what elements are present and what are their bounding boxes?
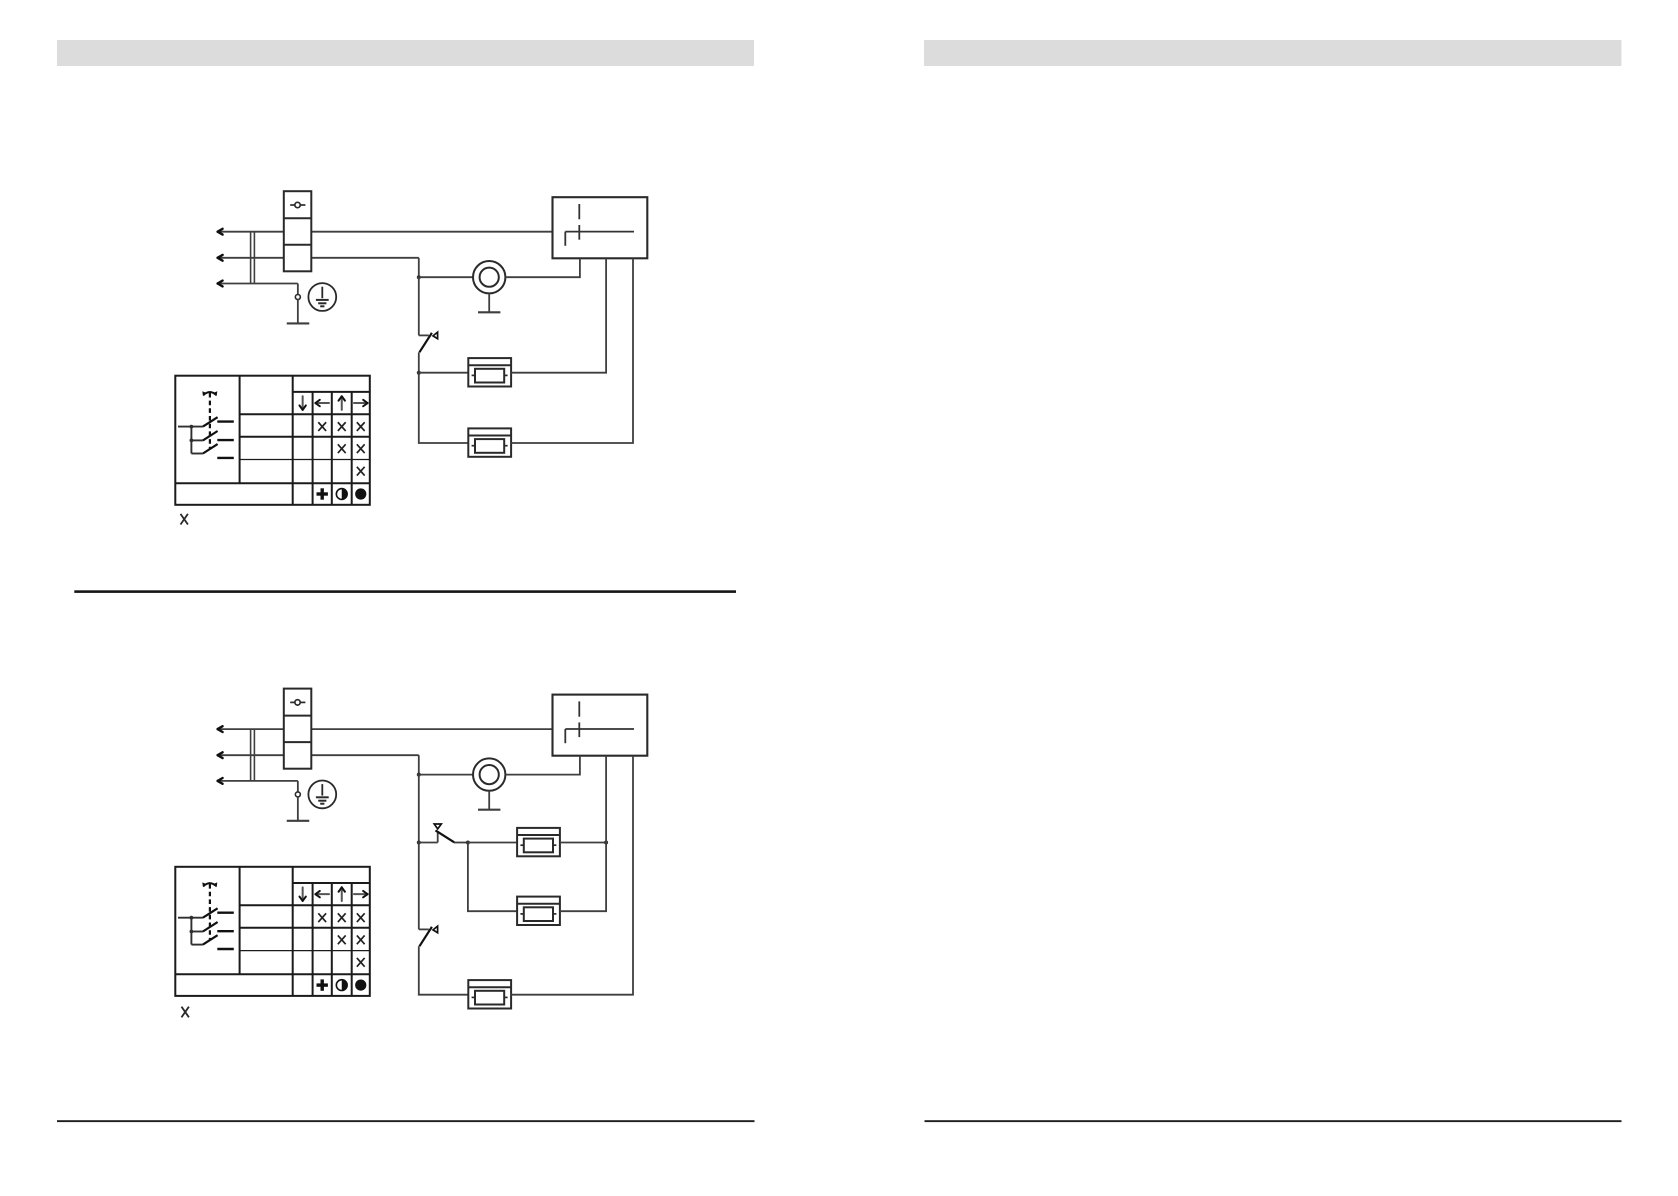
table T1 3-pole contact pictogram (178, 417, 234, 458)
table T1 header direction arrows (299, 396, 367, 410)
cable marker (diagram 1) (251, 232, 255, 284)
thermal contact F3 (diagram 2) (419, 926, 438, 946)
wire to lamp E1 (diagram 2) (468, 842, 517, 844)
feeder arrow L2 (diagram 2) (218, 752, 223, 758)
PE terminal and ground (diagram 2) (287, 781, 310, 821)
section divider rule (74, 590, 736, 593)
wire node to motor (diagram 2) (419, 774, 473, 776)
wire control unit to right bus (diagram 2) (605, 756, 607, 843)
wire contact to parallel lamps (diagram 2) (454, 842, 468, 844)
thermal contact F2 (diagram 1) (419, 332, 438, 352)
switch-position table T1 grid (175, 376, 369, 505)
wire node down to thermal contact (diagram 1) (418, 277, 420, 335)
table T1 footer state symbols (317, 488, 367, 499)
protective-earth symbol (diagram 1) (308, 283, 336, 311)
control unit A1 (diagram 1) (553, 197, 648, 258)
page header bar left (57, 40, 754, 66)
junction node parallel lamps left (diagram 2) (466, 841, 470, 845)
feeder arrow L2 (diagram 1) (218, 255, 223, 261)
wire L2 feeder (diagram 2) (218, 754, 419, 756)
feeder arrow L1 (diagram 2) (218, 726, 223, 732)
junction node lamp bus top (diagram 2) (417, 841, 421, 845)
wire lamp E2 to right bus (diagram 2) (560, 843, 606, 912)
PE terminal and ground (diagram 1) (287, 284, 310, 324)
wire node to motor (diagram 1) (419, 276, 473, 278)
wire node to thermal contact F2 (diagram 2) (419, 842, 438, 844)
wire L2 feeder (diagram 1) (218, 257, 419, 259)
wire L1 feeder (diagram 2) (218, 728, 553, 730)
feeder arrow PE (diagram 1) (218, 281, 223, 287)
feeder arrow PE (diagram 2) (218, 778, 223, 784)
main switch Q1 (diagram 2) (284, 689, 312, 769)
table T1 footnote X (181, 514, 188, 525)
table T2 X marks (318, 913, 364, 966)
wire node down to lamp bus (diagram 2) (418, 775, 420, 843)
wire PE feeder (diagram 2) (218, 780, 298, 782)
page footer rule left (57, 1120, 755, 1122)
wire L2 drop to motor node (diagram 1) (418, 258, 420, 277)
wire contact to lamp node (diagram 1) (418, 352, 420, 372)
control unit A1 (diagram 2) (553, 695, 648, 756)
junction node motor row (diagram 2) (417, 773, 421, 777)
junction node motor row (diagram 1) (417, 275, 421, 279)
signal lamp E2 (diagram 1) (468, 428, 511, 456)
page footer rule right (925, 1120, 1622, 1122)
wire L1 feeder (diagram 1) (218, 231, 553, 233)
wire motor to control unit (diagram 2) (505, 756, 580, 775)
table T2 header direction arrows (299, 887, 367, 901)
signal lamp E2 (diagram 2) (517, 897, 560, 925)
wire PE feeder (diagram 1) (218, 283, 298, 285)
table T2 footnote X (182, 1007, 189, 1018)
wire lamp E3 to control unit (diagram 2) (511, 756, 633, 995)
cable marker (diagram 2) (251, 729, 255, 781)
signal lamp E3 (diagram 2) (468, 980, 511, 1008)
page header bar right (924, 40, 1622, 66)
wire lamp E1 to right bus (diagram 2) (560, 842, 606, 844)
wire lamp E2 to control unit (diagram 1) (511, 258, 633, 443)
motor M1 (diagram 2) (473, 758, 505, 809)
feeder arrow L1 (diagram 1) (218, 229, 223, 235)
wire node to lamp E1 (diagram 1) (419, 372, 469, 374)
wire L2 drop to motor node (diagram 2) (418, 755, 420, 774)
switch-position table T2 grid (175, 867, 369, 996)
wire motor to control unit (diagram 1) (505, 258, 580, 277)
thermal contact F2 (diagram 2) (434, 824, 454, 843)
main switch Q1 (diagram 1) (284, 191, 312, 271)
signal lamp E1 (diagram 1) (468, 358, 511, 386)
wire contact F3 down to lamp E3 (diagram 2) (419, 946, 469, 994)
wire node down to lamp E2 (diagram 1) (419, 373, 469, 443)
junction node parallel lamps right (diagram 2) (604, 841, 608, 845)
wire lamp E1 to control unit (diagram 1) (511, 258, 606, 372)
wire left bus down to lamp E2 (diagram 2) (468, 843, 517, 912)
junction node lamp row (diagram 1) (417, 371, 421, 375)
table T1 X marks (318, 422, 364, 475)
table T2 rotary-handle pictogram shaft (202, 882, 217, 939)
table T2 footer state symbols (317, 979, 367, 990)
table T2 3-pole contact pictogram (178, 908, 234, 949)
signal lamp E1 (diagram 2) (517, 828, 560, 856)
protective-earth symbol (diagram 2) (308, 781, 336, 809)
motor M1 (diagram 1) (473, 261, 505, 312)
table T1 rotary-handle pictogram shaft (202, 391, 217, 448)
wire bus down to thermal contact F3 (diagram 2) (418, 843, 420, 930)
